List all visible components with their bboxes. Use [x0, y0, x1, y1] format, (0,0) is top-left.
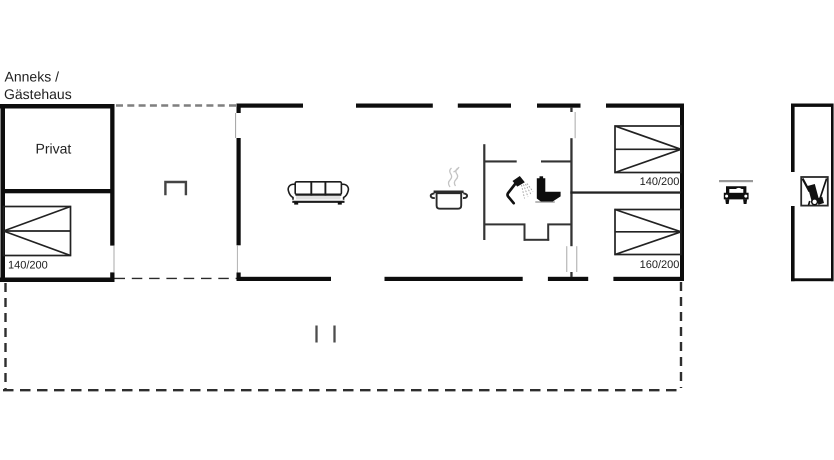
- svg-text:160/200: 160/200: [640, 259, 680, 271]
- svg-text:140/200: 140/200: [8, 260, 48, 272]
- svg-text:Anneks /: Anneks /: [5, 69, 60, 85]
- svg-text:Gästehaus: Gästehaus: [4, 86, 72, 102]
- svg-text:140/200: 140/200: [640, 176, 680, 188]
- svg-text:Privat: Privat: [36, 141, 72, 157]
